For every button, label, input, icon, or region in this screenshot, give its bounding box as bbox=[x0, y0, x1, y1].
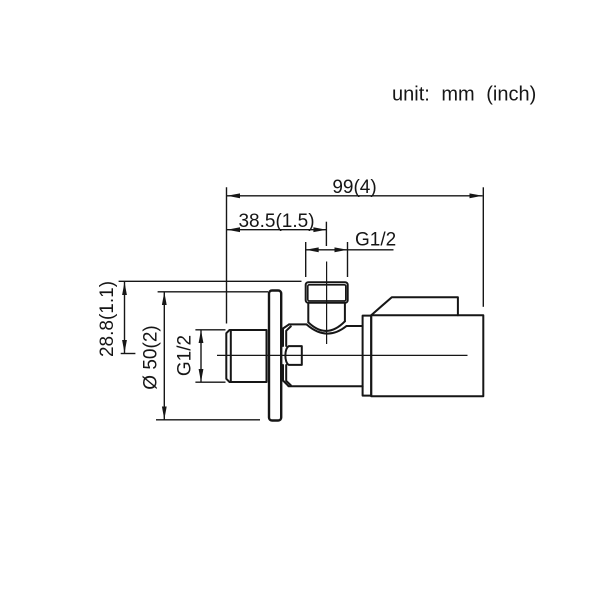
arrow G12top right bbox=[335, 247, 348, 252]
body end face line bbox=[283, 324, 289, 386]
arrow G12left up bbox=[199, 330, 204, 343]
handle top line bbox=[371, 314, 458, 316]
dim line 28.8(1.1) bbox=[124, 282, 126, 353]
bonnet collar bbox=[363, 316, 372, 396]
dim line 99(4) bbox=[227, 195, 483, 197]
side tab bbox=[285, 346, 301, 365]
horizontal centerline bbox=[217, 354, 468, 356]
ext line bottom of dia50 bbox=[156, 419, 260, 421]
outlet pipe left wall bbox=[307, 303, 309, 323]
dim line 38.5(1.5) bbox=[227, 229, 326, 231]
fillet inner arc bbox=[308, 321, 345, 331]
inlet nipple chamfer line bbox=[230, 330, 232, 382]
dim line G1/2 top bbox=[306, 249, 394, 251]
arrow 38.5 right bbox=[313, 227, 326, 232]
ext line left of G1/2 top bbox=[305, 242, 307, 277]
ext line top of G1/2 left bbox=[195, 329, 225, 331]
body bottom edge bbox=[289, 385, 363, 387]
body top edge left bbox=[289, 323, 307, 325]
outlet vertical centerline bbox=[326, 262, 328, 345]
ext line top of 28.8 bbox=[119, 280, 302, 282]
svg-text:38.5(1.5): 38.5(1.5) bbox=[238, 211, 314, 232]
svg-text:G1/2: G1/2 bbox=[175, 335, 196, 376]
arrow dia50 up bbox=[162, 292, 167, 305]
arrowheads bbox=[122, 193, 482, 419]
outlet thread cap inner bbox=[308, 285, 346, 301]
svg-text:G1/2: G1/2 bbox=[355, 230, 396, 251]
fillet outer arc bbox=[307, 324, 347, 333]
body top edge right bbox=[347, 325, 363, 327]
ext line left of 99 bbox=[226, 187, 228, 323]
arrow 99 left bbox=[227, 193, 240, 198]
arrow 38.5 left bbox=[227, 227, 240, 232]
svg-text:unit: mm (inch): unit: mm (inch) bbox=[392, 84, 536, 106]
ext line bottom of G1/2 left bbox=[195, 381, 225, 383]
svg-text:99(4): 99(4) bbox=[332, 177, 376, 198]
arrow 28.8 down bbox=[122, 340, 127, 353]
outlet thread cap outer bbox=[306, 282, 348, 303]
ext line right of G1/2 top bbox=[347, 242, 349, 277]
centerlines bbox=[217, 262, 468, 356]
body second face line bbox=[286, 326, 291, 385]
arrow dia50 down bbox=[162, 407, 167, 420]
dim line G1/2 left bbox=[200, 330, 202, 382]
ext line top of dia50 bbox=[158, 291, 268, 293]
handle outline bbox=[371, 297, 483, 396]
ext line right of 38.5 bbox=[325, 222, 327, 246]
ext line right of 99 bbox=[482, 187, 484, 306]
inlet nipple G1/2 outline bbox=[226, 330, 266, 382]
ext line bottom of 28.8 bbox=[121, 353, 136, 355]
dimension lines bbox=[119, 187, 484, 419]
dim line dia 50(2) bbox=[163, 292, 165, 420]
svg-text:Ø 50(2): Ø 50(2) bbox=[141, 325, 162, 389]
svg-text:28.8(1.1): 28.8(1.1) bbox=[97, 281, 118, 357]
outlet pipe right wall bbox=[344, 303, 346, 322]
arrow G12top left bbox=[306, 247, 319, 252]
arrow G12left down bbox=[199, 369, 204, 382]
arrow 28.8 up bbox=[122, 282, 127, 295]
wall flange plate bbox=[269, 291, 281, 421]
arrow 99 right bbox=[470, 193, 483, 198]
